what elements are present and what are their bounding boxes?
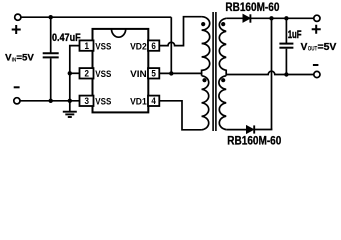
pin 4 box: [148, 96, 159, 106]
svg-text:RB160M-60: RB160M-60: [225, 1, 279, 14]
svg-text:VSS: VSS: [95, 69, 111, 80]
node dot riser/pin5: [169, 71, 173, 75]
wire pin5 to primary center tap: [159, 72, 201, 74]
wire bottom rail: [20, 100, 81, 102]
svg-text:VSS: VSS: [95, 97, 111, 108]
polarity dot primary top: [201, 22, 205, 26]
terminal VIN+: [15, 14, 21, 20]
capacitor C2 1uF: [279, 18, 293, 74]
wire riser VIN rail: [170, 17, 172, 73]
wire riser diode bottom to top node: [271, 18, 273, 129]
label VIN=5V: [5, 53, 35, 64]
svg-text:VSS: VSS: [95, 41, 111, 52]
svg-text:OUT: OUT: [308, 46, 318, 53]
diode D2 RB160M-60 bottom: [247, 125, 255, 133]
pin 6 box: [148, 40, 159, 50]
capacitor C1 0.47uF: [43, 17, 59, 101]
diode D1 RB160M-60 top: [243, 14, 250, 22]
svg-text:=5V: =5V: [16, 53, 34, 63]
wire top rail: [21, 16, 171, 18]
wire pin2 stub: [70, 72, 81, 74]
svg-text:VIN: VIN: [130, 69, 147, 80]
node dot top/riser: [269, 16, 273, 20]
wire secondary center tap to - terminal with hop: [226, 71, 314, 74]
minus sign input: [14, 86, 20, 88]
svg-text:VD1: VD1: [130, 97, 147, 108]
pin 3 box: [80, 96, 94, 106]
svg-text:6: 6: [151, 41, 156, 51]
node dot top/C2: [284, 16, 288, 20]
polarity dot primary bottom: [202, 78, 206, 82]
terminal VIN-: [14, 98, 20, 104]
svg-text:0.47uF: 0.47uF: [52, 32, 81, 44]
label VOUT=5V: [301, 42, 337, 53]
svg-text:RB160M-60: RB160M-60: [227, 135, 281, 148]
wire bottom diode to riser: [254, 129, 272, 131]
svg-text:1: 1: [85, 41, 90, 51]
wire pin1 to ground riser: [70, 46, 81, 112]
svg-text:4: 4: [151, 96, 156, 106]
IC U1 pin-1 notch: [112, 29, 126, 37]
transformer core: [213, 12, 216, 131]
node dot riser/pin2: [68, 71, 72, 75]
svg-text:3: 3: [85, 96, 90, 106]
node dot top rail / C1: [49, 15, 53, 19]
node dot bottom rail / C1: [49, 99, 53, 103]
terminal VOUT+: [314, 15, 320, 21]
plus sign input: [12, 25, 21, 34]
transformer T1 primary winding top: [202, 17, 210, 76]
wire secondary bottom to bottom diode: [226, 129, 247, 131]
pin 2 box: [80, 68, 94, 78]
wire VD2 pin6 with hop to primary top: [159, 17, 201, 46]
svg-text:=5V: =5V: [318, 42, 337, 53]
svg-text:VD2: VD2: [130, 41, 147, 52]
svg-text:5: 5: [151, 69, 156, 79]
IC U1 body: [93, 29, 149, 113]
plus sign output: [312, 25, 321, 34]
pin 5 box: [148, 68, 159, 78]
ground: [63, 112, 77, 117]
minus sign output: [313, 64, 319, 66]
polarity dot secondary bottom: [221, 78, 225, 82]
pin 1 box: [80, 40, 94, 50]
svg-text:V: V: [301, 42, 308, 53]
wire VD1 pin4 to primary bottom: [159, 101, 201, 130]
transformer T1 secondary winding top: [219, 18, 226, 76]
wire secondary top to + terminal: [226, 17, 314, 19]
svg-text:1uF: 1uF: [288, 29, 302, 41]
svg-text:2: 2: [85, 69, 90, 79]
node dot riser/rail: [68, 99, 72, 103]
transformer T1 primary winding bottom: [202, 76, 209, 130]
polarity dot secondary top: [221, 22, 225, 26]
terminal VOUT-: [314, 71, 320, 77]
transformer T1 secondary winding bottom: [219, 76, 226, 130]
node dot -rail/C2: [284, 72, 288, 76]
